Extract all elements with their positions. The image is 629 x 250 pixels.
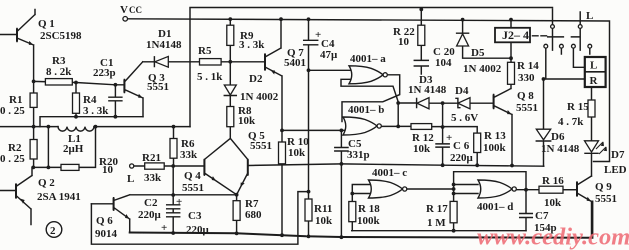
svg-text:104: 104 [435,57,452,69]
svg-text:3 . 3k: 3 . 3k [239,39,265,51]
svg-text:2: 2 [50,225,56,237]
svg-text:C 6: C 6 [453,140,470,152]
svg-text:Q 9: Q 9 [595,181,612,193]
svg-text:R 15: R 15 [567,101,589,113]
svg-text:680: 680 [245,209,262,221]
svg-text:4001– a: 4001– a [350,53,386,65]
svg-text:D5: D5 [471,47,485,59]
svg-text:R: R [590,75,599,87]
svg-text:33k: 33k [180,149,198,161]
svg-text:5551: 5551 [250,140,272,152]
svg-text:5551: 5551 [147,81,169,93]
svg-text:Q 8: Q 8 [517,90,534,102]
svg-text:100k: 100k [483,142,507,154]
svg-text:R 16: R 16 [542,175,564,187]
svg-text:+: + [446,132,452,144]
svg-text:L: L [127,173,134,185]
svg-text:D6: D6 [551,131,565,143]
svg-text:LED: LED [604,164,627,176]
svg-text:J2– 4: J2– 4 [502,28,529,42]
svg-text:C2: C2 [144,197,158,209]
svg-text:R 14: R 14 [517,60,539,72]
svg-text:10: 10 [102,164,114,176]
svg-text:223p: 223p [93,67,116,79]
svg-text:D7: D7 [611,149,625,161]
svg-text:Q 2: Q 2 [38,177,55,189]
svg-text:R5: R5 [198,45,212,57]
svg-text:2SC5198: 2SC5198 [40,30,82,42]
svg-text:5 . 1k: 5 . 1k [197,71,223,83]
svg-text:0 . 25: 0 . 25 [0,153,25,165]
svg-text:9014: 9014 [95,228,118,240]
svg-text:3 . 3k: 3 . 3k [83,105,109,117]
svg-text:5 . 6V: 5 . 6V [451,112,478,124]
svg-text:10k: 10k [413,143,431,155]
svg-text:330: 330 [518,72,535,84]
svg-text:33k: 33k [144,172,162,184]
svg-text:220μ: 220μ [186,224,210,236]
svg-text:4001– c: 4001– c [372,167,407,179]
svg-text:D4: D4 [455,85,469,97]
svg-text:C3: C3 [188,210,202,222]
svg-text:R 18: R 18 [358,203,380,215]
svg-text:5401: 5401 [284,57,306,69]
svg-text:www.cediy.com: www.cediy.com [477,224,629,250]
svg-text:1N 4002: 1N 4002 [240,91,279,103]
svg-text:0 . 25: 0 . 25 [0,105,25,117]
svg-text:R 17: R 17 [426,203,448,215]
svg-text:R 13: R 13 [484,130,506,142]
svg-text:C7: C7 [535,210,549,222]
svg-text:Q 1: Q 1 [38,18,55,30]
svg-text:10k: 10k [288,147,306,159]
svg-text:331p: 331p [347,149,370,161]
svg-text:2SA 1941: 2SA 1941 [37,191,81,203]
svg-text:10: 10 [398,36,410,48]
svg-text:V: V [120,4,128,16]
svg-text:4 . 7k: 4 . 7k [558,116,584,128]
svg-text:4001– d: 4001– d [477,201,513,213]
svg-text:1N 4148: 1N 4148 [408,84,447,96]
svg-text:D2: D2 [249,73,263,85]
svg-text:1N4148: 1N4148 [146,39,182,51]
svg-text:R11: R11 [314,203,332,215]
svg-text:47μ: 47μ [320,49,338,61]
svg-text:5551: 5551 [182,182,204,194]
svg-text:L: L [590,60,597,72]
svg-text:100k: 100k [357,215,381,227]
svg-text:1N 4148: 1N 4148 [541,143,580,155]
svg-text:CC: CC [129,5,142,15]
svg-text:4001– b: 4001– b [348,104,384,116]
svg-text:Q 6: Q 6 [96,215,113,227]
svg-text:R21: R21 [142,152,161,164]
svg-text:Q 4: Q 4 [184,170,201,182]
svg-text:220μ: 220μ [450,152,474,164]
svg-text:5551: 5551 [516,102,538,114]
svg-text:10k: 10k [315,215,333,227]
svg-text:L: L [586,10,593,22]
svg-text:5551: 5551 [595,193,617,205]
svg-text:10k: 10k [238,115,256,127]
svg-text:1N 4002: 1N 4002 [463,63,502,75]
svg-text:8 . 2k: 8 . 2k [46,66,72,78]
svg-text:+: + [161,222,167,234]
svg-text:10k: 10k [544,197,562,209]
svg-text:2μH: 2μH [63,143,84,155]
svg-text:+: + [176,196,182,208]
svg-text:1 M: 1 M [427,217,446,229]
svg-text:220μ: 220μ [138,209,162,221]
